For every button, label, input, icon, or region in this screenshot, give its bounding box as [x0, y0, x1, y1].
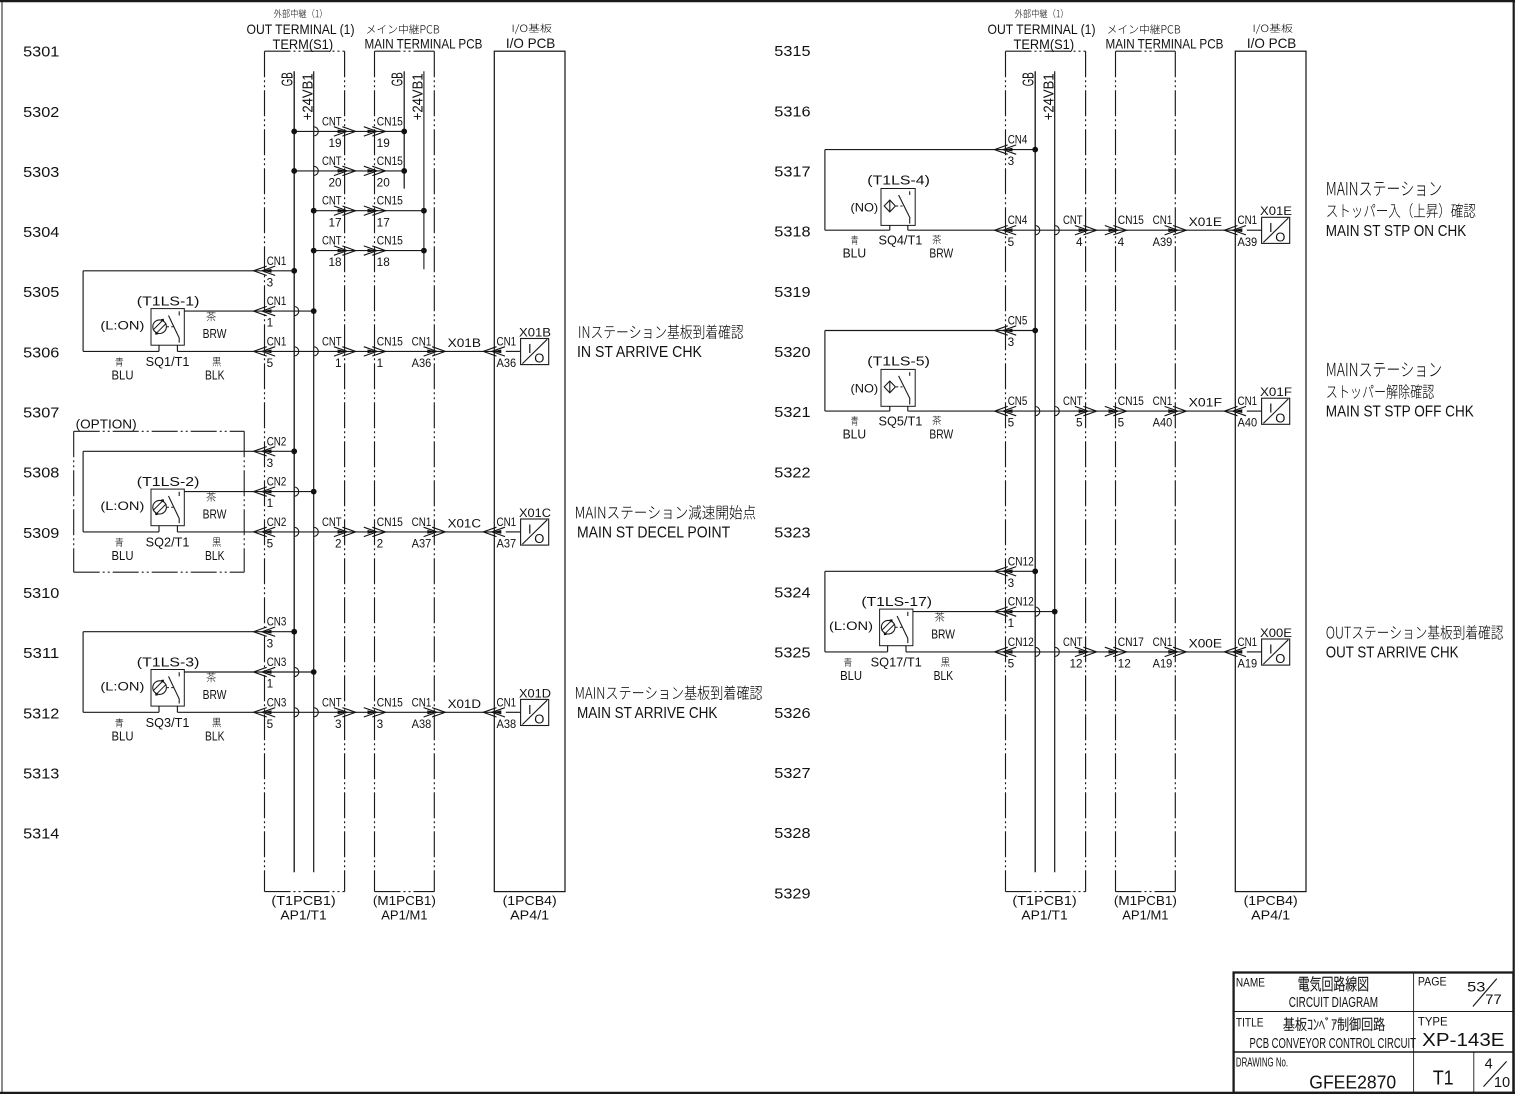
svg-text:X01E: X01E [1189, 215, 1222, 229]
svg-text:BLU: BLU [840, 669, 862, 683]
svg-text:(T1LS-1): (T1LS-1) [137, 294, 200, 309]
svg-text:5314: 5314 [23, 827, 59, 843]
svg-text:5: 5 [267, 358, 274, 370]
svg-text:GB: GB [1021, 72, 1038, 86]
svg-text:PAGE: PAGE [1418, 974, 1447, 988]
svg-text:5: 5 [267, 719, 274, 731]
svg-text:A38: A38 [497, 719, 517, 731]
svg-text:BRW: BRW [203, 688, 227, 702]
svg-text:20: 20 [329, 178, 342, 190]
svg-text:5309: 5309 [23, 526, 59, 542]
svg-text:SQ1/T1: SQ1/T1 [146, 355, 190, 369]
svg-text:+24VB1: +24VB1 [410, 73, 427, 120]
svg-text:X01F: X01F [1260, 385, 1292, 399]
svg-text:(L:ON): (L:ON) [100, 499, 144, 513]
svg-text:5319: 5319 [774, 285, 810, 301]
svg-text:CN5: CN5 [1008, 316, 1028, 328]
svg-text:1: 1 [267, 498, 274, 510]
svg-text:MAIN ST ARRIVE CHK: MAIN ST ARRIVE CHK [577, 705, 718, 722]
svg-text:CNT: CNT [1063, 637, 1083, 649]
svg-text:1: 1 [377, 358, 384, 370]
svg-text:12: 12 [1070, 659, 1083, 671]
svg-text:AP1/M1: AP1/M1 [1122, 908, 1168, 923]
svg-text:(NO): (NO) [851, 382, 879, 396]
svg-text:(T1PCB1): (T1PCB1) [1012, 893, 1076, 908]
svg-text:5304: 5304 [23, 225, 59, 241]
svg-text:5301: 5301 [23, 45, 59, 61]
svg-text:2: 2 [335, 539, 342, 551]
svg-text:X01C: X01C [448, 517, 482, 531]
svg-text:A36: A36 [497, 358, 517, 370]
svg-text:(M1PCB1): (M1PCB1) [373, 893, 436, 908]
svg-text:5321: 5321 [774, 405, 810, 421]
svg-text:CN4: CN4 [1008, 215, 1028, 227]
svg-text:CN1: CN1 [1238, 215, 1258, 227]
svg-text:CN12: CN12 [1008, 597, 1034, 609]
svg-text:OUT ST ARRIVE CHK: OUT ST ARRIVE CHK [1326, 645, 1459, 662]
svg-text:MAIN ST STP OFF CHK: MAIN ST STP OFF CHK [1326, 404, 1475, 421]
svg-text:GB: GB [390, 72, 407, 86]
svg-text:BLK: BLK [205, 549, 225, 563]
svg-text:3: 3 [267, 458, 274, 470]
svg-text:TERM(S1): TERM(S1) [273, 36, 334, 52]
svg-text:A38: A38 [412, 719, 432, 731]
svg-text:BRW: BRW [203, 327, 227, 341]
svg-text:O: O [534, 531, 544, 546]
svg-text:5: 5 [1008, 418, 1015, 430]
svg-text:AP4/1: AP4/1 [1251, 908, 1290, 923]
svg-text:CNT: CNT [1063, 396, 1083, 408]
svg-text:10: 10 [1494, 1075, 1510, 1091]
svg-text:5325: 5325 [774, 646, 810, 662]
svg-text:5323: 5323 [774, 525, 810, 541]
svg-text:BRW: BRW [203, 508, 227, 522]
svg-text:5: 5 [1008, 659, 1015, 671]
svg-text:CN1: CN1 [497, 697, 517, 709]
svg-text:5: 5 [1076, 418, 1083, 430]
svg-text:CN15: CN15 [377, 156, 403, 168]
svg-text:SQ17/T1: SQ17/T1 [871, 656, 922, 670]
svg-text:3: 3 [267, 638, 274, 650]
svg-text:53: 53 [1467, 979, 1485, 995]
svg-text:OUT TERMINAL (1): OUT TERMINAL (1) [247, 21, 355, 37]
svg-text:(T1PCB1): (T1PCB1) [271, 893, 335, 908]
svg-text:A40: A40 [1153, 418, 1173, 430]
svg-text:I: I [528, 522, 532, 537]
svg-text:A19: A19 [1153, 659, 1173, 671]
svg-text:X01D: X01D [519, 686, 551, 700]
svg-text:5328: 5328 [774, 826, 810, 842]
svg-text:5311: 5311 [23, 646, 59, 662]
svg-text:5306: 5306 [23, 345, 59, 361]
svg-text:BLK: BLK [934, 669, 954, 683]
svg-text:5303: 5303 [23, 165, 59, 181]
svg-text:CN2: CN2 [267, 477, 287, 489]
svg-text:CN1: CN1 [267, 256, 287, 268]
svg-text:X01B: X01B [519, 325, 551, 339]
svg-text:4: 4 [1118, 237, 1125, 249]
svg-text:OUT TERMINAL (1): OUT TERMINAL (1) [988, 21, 1096, 37]
svg-text:X00E: X00E [1189, 637, 1222, 651]
svg-text:5327: 5327 [774, 766, 810, 782]
svg-text:PCB CONVEYOR CONTROL CIRCUIT: PCB CONVEYOR CONTROL CIRCUIT [1250, 1035, 1417, 1052]
svg-text:T1: T1 [1433, 1068, 1454, 1090]
svg-text:3: 3 [335, 719, 342, 731]
svg-text:CN15: CN15 [377, 336, 403, 348]
svg-text:CN1: CN1 [412, 336, 432, 348]
svg-text:XP-143E: XP-143E [1422, 1029, 1504, 1050]
svg-text:CN4: CN4 [1008, 135, 1028, 147]
svg-text:(1PCB4): (1PCB4) [1244, 893, 1298, 908]
svg-text:O: O [534, 712, 544, 727]
svg-text:CNT: CNT [322, 236, 342, 248]
svg-text:CN15: CN15 [1118, 215, 1144, 227]
svg-text:BRW: BRW [929, 247, 953, 261]
svg-text:5318: 5318 [774, 225, 810, 241]
svg-text:CN1: CN1 [497, 517, 517, 529]
svg-text:5307: 5307 [23, 406, 59, 422]
svg-text:(L:ON): (L:ON) [100, 679, 144, 693]
svg-text:CN15: CN15 [377, 697, 403, 709]
svg-text:3: 3 [1008, 337, 1015, 349]
svg-text:CN1: CN1 [267, 336, 287, 348]
svg-text:(NO): (NO) [851, 201, 879, 215]
svg-text:A37: A37 [412, 539, 432, 551]
svg-text:CN12: CN12 [1008, 556, 1034, 568]
svg-text:17: 17 [329, 217, 342, 229]
svg-text:CIRCUIT DIAGRAM: CIRCUIT DIAGRAM [1289, 994, 1378, 1011]
svg-text:(L:ON): (L:ON) [100, 319, 144, 333]
svg-text:5: 5 [1008, 237, 1015, 249]
svg-text:77: 77 [1485, 991, 1502, 1007]
svg-text:(T1LS-5): (T1LS-5) [867, 354, 930, 369]
svg-text:5322: 5322 [774, 465, 810, 481]
svg-text:(T1LS-4): (T1LS-4) [867, 173, 930, 188]
svg-text:19: 19 [377, 138, 390, 150]
svg-text:4: 4 [1076, 237, 1083, 249]
svg-text:CN1: CN1 [267, 296, 287, 308]
svg-text:SQ5/T1: SQ5/T1 [879, 414, 923, 428]
svg-text:I: I [1269, 642, 1273, 657]
svg-text:CN1: CN1 [1238, 396, 1258, 408]
svg-text:5316: 5316 [774, 104, 810, 120]
svg-text:A37: A37 [497, 539, 517, 551]
svg-text:CN15: CN15 [377, 236, 403, 248]
svg-text:(L:ON): (L:ON) [829, 619, 873, 633]
svg-text:CNT: CNT [1063, 215, 1083, 227]
svg-text:BLK: BLK [205, 369, 225, 383]
svg-text:AP4/1: AP4/1 [510, 908, 549, 923]
svg-text:19: 19 [329, 138, 342, 150]
svg-text:3: 3 [1008, 156, 1015, 168]
svg-text:X01C: X01C [519, 506, 551, 520]
svg-text:A36: A36 [412, 358, 432, 370]
svg-text:CN12: CN12 [1008, 637, 1034, 649]
svg-text:O: O [1275, 651, 1285, 666]
svg-text:3: 3 [267, 277, 274, 289]
svg-text:CN3: CN3 [267, 697, 287, 709]
svg-text:5310: 5310 [23, 586, 59, 602]
svg-text:I: I [528, 341, 532, 356]
svg-text:NAME: NAME [1236, 975, 1265, 989]
svg-text:MAIN TERMINAL PCB: MAIN TERMINAL PCB [365, 35, 483, 51]
svg-text:BLU: BLU [112, 369, 134, 383]
svg-text:5308: 5308 [23, 466, 59, 482]
svg-text:5313: 5313 [23, 766, 59, 782]
svg-text:3: 3 [1008, 578, 1015, 590]
svg-text:17: 17 [377, 217, 390, 229]
svg-text:BLU: BLU [112, 549, 134, 563]
svg-text:CN1: CN1 [412, 517, 432, 529]
svg-text:(OPTION): (OPTION) [76, 416, 137, 431]
svg-text:1: 1 [267, 679, 274, 691]
svg-text:SQ2/T1: SQ2/T1 [146, 536, 190, 550]
svg-text:(M1PCB1): (M1PCB1) [1114, 893, 1177, 908]
svg-text:5317: 5317 [774, 165, 810, 181]
svg-text:5312: 5312 [23, 706, 59, 722]
svg-text:12: 12 [1118, 659, 1131, 671]
svg-text:1: 1 [1008, 618, 1015, 630]
svg-text:3: 3 [377, 719, 384, 731]
svg-text:CN1: CN1 [1153, 215, 1173, 227]
svg-text:X00E: X00E [1260, 626, 1292, 640]
svg-text:(T1LS-17): (T1LS-17) [861, 594, 932, 609]
svg-text:5324: 5324 [774, 586, 810, 602]
svg-text:BRW: BRW [929, 428, 953, 442]
svg-text:(T1LS-2): (T1LS-2) [137, 474, 200, 489]
svg-text:SQ4/T1: SQ4/T1 [879, 234, 923, 248]
svg-text:I/O PCB: I/O PCB [506, 35, 555, 51]
svg-text:CN1: CN1 [497, 336, 517, 348]
svg-text:CNT: CNT [322, 116, 342, 128]
svg-text:CN15: CN15 [1118, 396, 1144, 408]
svg-text:2: 2 [377, 539, 384, 551]
svg-text:(T1LS-3): (T1LS-3) [137, 654, 200, 669]
svg-text:X01F: X01F [1189, 396, 1222, 410]
svg-text:GFEE2870: GFEE2870 [1309, 1073, 1396, 1093]
svg-text:MAIN ST DECEL POINT: MAIN ST DECEL POINT [577, 525, 731, 542]
svg-text:O: O [534, 351, 544, 366]
svg-text:(1PCB4): (1PCB4) [503, 893, 557, 908]
svg-text:A40: A40 [1238, 418, 1258, 430]
svg-text:AP1/M1: AP1/M1 [381, 908, 427, 923]
svg-text:MAIN ST STP ON CHK: MAIN ST STP ON CHK [1326, 223, 1467, 240]
svg-text:5329: 5329 [774, 886, 810, 902]
svg-text:TYPE: TYPE [1418, 1015, 1448, 1029]
svg-text:+24VB1: +24VB1 [300, 73, 317, 120]
svg-text:TERM(S1): TERM(S1) [1014, 36, 1075, 52]
svg-text:BLU: BLU [112, 729, 134, 743]
svg-text:5326: 5326 [774, 706, 810, 722]
svg-text:I: I [1269, 401, 1273, 416]
svg-text:4: 4 [1485, 1057, 1493, 1073]
svg-text:CN3: CN3 [267, 617, 287, 629]
svg-text:CNT: CNT [322, 697, 342, 709]
svg-text:I: I [528, 702, 532, 717]
svg-text:AP1/T1: AP1/T1 [280, 908, 326, 923]
svg-text:20: 20 [377, 178, 390, 190]
svg-text:BLU: BLU [843, 428, 867, 442]
svg-text:I: I [1269, 220, 1273, 235]
svg-text:5320: 5320 [774, 345, 810, 361]
svg-text:5: 5 [1118, 418, 1125, 430]
svg-text:CN3: CN3 [267, 657, 287, 669]
svg-text:DRAWING No.: DRAWING No. [1236, 1055, 1288, 1070]
svg-text:X01D: X01D [448, 697, 482, 711]
svg-text:BRW: BRW [931, 628, 955, 642]
svg-text:CN2: CN2 [267, 436, 287, 448]
svg-text:SQ3/T1: SQ3/T1 [146, 716, 190, 730]
svg-text:CNT: CNT [322, 156, 342, 168]
svg-text:A39: A39 [1153, 237, 1173, 249]
svg-text:GB: GB [280, 72, 297, 86]
svg-text:CNT: CNT [322, 336, 342, 348]
svg-text:O: O [1275, 229, 1285, 244]
svg-text:O: O [1275, 410, 1285, 425]
svg-text:A19: A19 [1238, 659, 1258, 671]
svg-text:AP1/T1: AP1/T1 [1021, 908, 1067, 923]
svg-text:BLK: BLK [205, 729, 225, 743]
svg-text:5315: 5315 [774, 44, 810, 60]
svg-text:X01B: X01B [448, 336, 481, 350]
svg-text:TITLE: TITLE [1236, 1015, 1264, 1029]
svg-text:IN ST ARRIVE CHK: IN ST ARRIVE CHK [577, 344, 702, 361]
svg-text:5: 5 [267, 539, 274, 551]
svg-text:CN15: CN15 [377, 196, 403, 208]
svg-text:CN1: CN1 [1153, 637, 1173, 649]
svg-text:5305: 5305 [23, 285, 59, 301]
svg-text:18: 18 [377, 257, 390, 269]
svg-text:I/O PCB: I/O PCB [1247, 35, 1296, 51]
svg-text:1: 1 [335, 358, 342, 370]
svg-text:CN1: CN1 [412, 697, 432, 709]
svg-text:CN1: CN1 [1153, 396, 1173, 408]
svg-text:1: 1 [267, 318, 274, 330]
svg-text:CN15: CN15 [377, 517, 403, 529]
svg-text:CN2: CN2 [267, 517, 287, 529]
svg-text:CNT: CNT [322, 196, 342, 208]
svg-text:18: 18 [329, 257, 342, 269]
svg-text:CN5: CN5 [1008, 396, 1028, 408]
svg-text:CN17: CN17 [1118, 637, 1144, 649]
svg-text:CN1: CN1 [1238, 637, 1258, 649]
svg-text:CN15: CN15 [377, 116, 403, 128]
svg-text:X01E: X01E [1260, 204, 1292, 218]
svg-text:+24VB1: +24VB1 [1041, 73, 1058, 120]
svg-text:A39: A39 [1238, 237, 1258, 249]
svg-text:BLU: BLU [843, 247, 867, 261]
svg-text:5302: 5302 [23, 105, 59, 121]
svg-text:MAIN TERMINAL PCB: MAIN TERMINAL PCB [1106, 35, 1224, 51]
svg-text:CNT: CNT [322, 517, 342, 529]
